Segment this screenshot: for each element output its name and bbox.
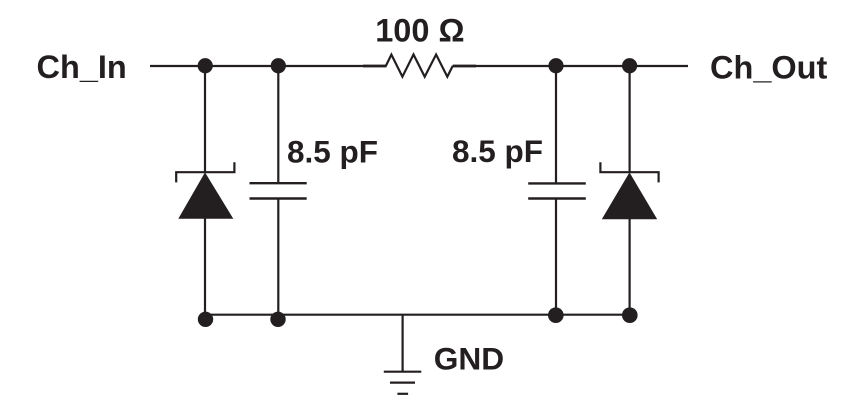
capacitor C1 bottom plate [250,197,307,199]
svg-text:8.5 pF: 8.5 pF [452,133,543,169]
capacitor C2 (8.5 pF) top plate [528,182,586,184]
resistor lead (left, thicker) [363,65,387,68]
wire: resistor to Ch_Out lead [453,65,688,67]
junction dot: bottom node at right diode [622,307,638,323]
capacitor C1 (8.5 pF) top plate [250,182,307,184]
svg-text:8.5 pF: 8.5 pF [287,133,378,169]
ground symbol bar 1 [384,371,422,373]
diode D1 cathode bar with zener tails [176,162,234,182]
ground symbol bar 2 [390,382,415,384]
svg-text:GND: GND [434,341,504,377]
wire: Ch_In lead to first junction [150,65,386,67]
junction dot: bottom node at right capacitor [548,307,564,323]
junction dot: top node at left diode [198,58,213,73]
junction dot: top node at left capacitor [271,58,286,73]
ground symbol bar 3 [397,393,408,395]
resistor lead (right, thicker) [453,65,476,68]
junction dot: bottom node at left diode [198,312,213,327]
junction dot: top node at right capacitor [548,58,563,73]
junction dot: bottom node at left capacitor [270,312,285,327]
wire: right diode column upper segment [628,66,630,173]
wire: left diode column lower segment [204,219,206,317]
diode D2 cathode bar with zener tails [600,162,658,182]
diode D1 triangle (anode, ESD clamp) [178,172,233,218]
svg-text:Ch_In: Ch_In [37,49,127,85]
wire: ground stub [402,315,404,372]
wire: right capacitor column lower segment [555,199,557,317]
svg-text:Ch_Out: Ch_Out [710,50,828,86]
wire: bottom ground bus [204,314,630,316]
wire: right capacitor column upper segment [555,66,557,183]
wire: left capacitor column lower segment [277,199,279,317]
wire: left capacitor column upper segment [277,66,279,183]
wire: right diode column lower segment [628,219,630,316]
diode D2 triangle (anode, ESD clamp) [602,172,657,219]
resistor R (100 ohm) zigzag body [386,55,453,77]
capacitor C2 bottom plate [528,197,586,199]
junction dot: top node at right diode [622,58,637,73]
svg-text:100 Ω: 100 Ω [375,13,464,49]
wire: left diode column upper segment [204,66,206,173]
